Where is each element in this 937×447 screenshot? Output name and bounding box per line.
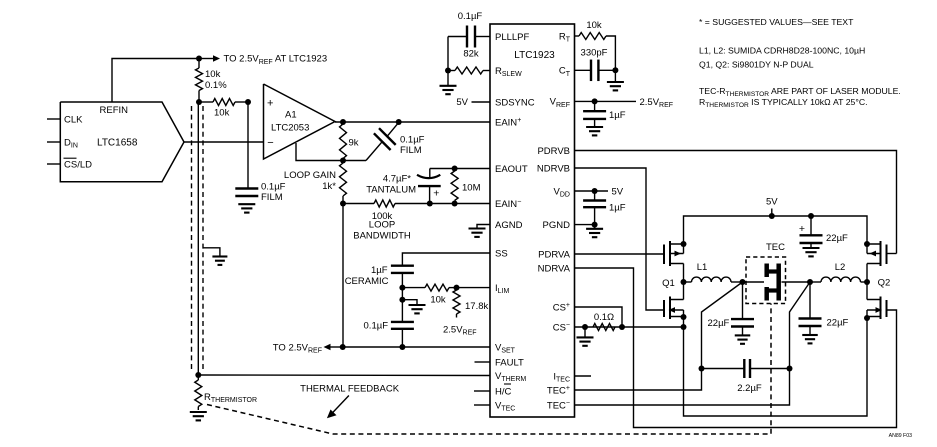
node 2.5VREF top (196, 56, 202, 62)
svg-text:10k: 10k (214, 108, 230, 119)
svg-text:5V: 5V (456, 97, 468, 108)
wire EAIN- (430, 203, 490, 205)
label Q1 (662, 278, 675, 289)
svg-text:REFIN: REFIN (100, 105, 129, 116)
svg-text:* = SUGGESTED VALUES—SEE TEXT: * = SUGGESTED VALUES—SEE TEXT (699, 17, 854, 27)
node 22uF+ top (808, 213, 814, 219)
svg-text:AGND: AGND (495, 220, 523, 231)
svg-text:2.2µF: 2.2µF (737, 383, 762, 394)
ground CS- (577, 327, 594, 346)
wire VSET (343, 346, 490, 348)
TEC element (743, 264, 811, 301)
pin ITEC stub (575, 375, 592, 377)
resistor 9k (340, 124, 359, 161)
resistor 10k to A1 (199, 99, 248, 119)
svg-text:82k: 82k (463, 49, 479, 60)
svg-text:5V: 5V (612, 186, 624, 197)
resistor 0.1 ohm (593, 312, 615, 331)
wire PLLLPF to 82k (447, 37, 449, 71)
node thermistor (195, 372, 201, 378)
svg-text:+: + (433, 188, 439, 200)
svg-text:22µF: 22µF (826, 233, 848, 244)
transistor Q1 P-channel top (664, 241, 687, 266)
wire ILIM (457, 287, 491, 289)
label THERMAL FEEDBACK (300, 384, 400, 419)
svg-text:1µF: 1µF (371, 265, 388, 276)
node bridge A out (681, 279, 687, 285)
op-amp A1 LTC2053 (264, 84, 336, 159)
svg-text:FILM: FILM (400, 145, 422, 156)
node A1 plus input (245, 99, 251, 105)
resistor 100k LOOP BANDWIDTH (343, 200, 430, 242)
pin H/C stub (474, 390, 490, 392)
svg-text:L1, L2: SUMIDA CDRH8D28-100NC,: L1, L2: SUMIDA CDRH8D28-100NC, 10µH (699, 46, 865, 56)
wire REFIN to 2.5VREF node (112, 59, 199, 103)
svg-text:Q1, Q2: Si9801DY N-P DUAL: Q1, Q2: Si9801DY N-P DUAL (699, 60, 814, 70)
svg-text:CS/LD: CS/LD (64, 159, 92, 170)
node 82k (445, 68, 451, 74)
node L1 out (740, 279, 746, 285)
IC LTC1658 DAC (60, 102, 184, 182)
svg-text:BANDWIDTH: BANDWIDTH (353, 231, 411, 242)
pin FAULT stub (475, 361, 491, 363)
node divider (196, 99, 202, 105)
wire SS (402, 253, 490, 266)
resistor 10M (451, 169, 480, 204)
shield dashed right (202, 106, 204, 372)
node PGND (592, 222, 598, 228)
wire CS+ (575, 307, 623, 327)
svg-text:A1: A1 (285, 110, 297, 121)
capacitor 22uF left (708, 318, 755, 335)
inductor L2 (810, 262, 867, 282)
svg-text:PGND: PGND (543, 220, 571, 231)
svg-text:PDRVB: PDRVB (537, 146, 570, 157)
ground 22uF plus (803, 248, 820, 256)
note Q1 Q2 (699, 60, 814, 70)
capacitor 1uF VDD (583, 191, 626, 225)
wire VTHERM (198, 374, 490, 377)
svg-text:5V: 5V (766, 197, 778, 208)
capacitor 1uF VREF (583, 101, 626, 126)
wire feedback to A1 minus (296, 143, 343, 161)
node VSET left (340, 344, 346, 350)
wire 1k to VSET line (342, 204, 344, 348)
ground 22uF right (802, 335, 818, 343)
wire TEC+ (575, 369, 702, 391)
node ILIM junction (399, 285, 405, 291)
wire PGND (575, 224, 595, 226)
thermal feedback dashed path (207, 304, 771, 435)
svg-text:1µF: 1µF (609, 110, 626, 121)
wire NDRVB (575, 168, 665, 310)
node 17.8k top (454, 285, 460, 291)
svg-text:LTC2053: LTC2053 (271, 123, 309, 134)
wire LTC1658 out to A1 minus (184, 141, 264, 143)
note thermistor value (699, 97, 868, 109)
svg-text:0.1Ω: 0.1Ω (594, 312, 614, 323)
wire SDSYNC 5V (456, 97, 490, 108)
resistor 1k LOOP GAIN (284, 163, 347, 204)
ground 82k (440, 71, 457, 95)
capacitor 22uF plus (799, 216, 848, 248)
wire CS- (575, 326, 684, 328)
svg-text:EAOUT: EAOUT (495, 164, 528, 175)
node 0.1ohm right (619, 324, 625, 330)
wire A1 output to EAIN+ (335, 121, 490, 123)
wire EAOUT (430, 168, 490, 170)
svg-text:PLLLPF: PLLLPF (495, 32, 530, 43)
node ground tap (399, 297, 405, 303)
ground below 0.1uF FILM (238, 204, 255, 212)
wire NDRVA (575, 268, 897, 428)
ground thermistor (190, 412, 207, 420)
wire Q2 drain to mid (866, 264, 868, 283)
svg-text:L1: L1 (697, 262, 708, 273)
svg-text:9k: 9k (349, 138, 359, 149)
node bridge B out (864, 279, 870, 285)
wire PDRVB (575, 151, 897, 254)
pin CLK of LTC1658 (47, 114, 83, 125)
svg-text:SS: SS (495, 248, 508, 259)
svg-text:CLK: CLK (64, 114, 83, 125)
wire Q1 source down (684, 318, 868, 416)
node VREF cap (592, 98, 598, 104)
svg-text:10k: 10k (205, 69, 221, 80)
note TEC laser module (699, 86, 901, 98)
svg-text:10M: 10M (462, 182, 481, 193)
ground PGND (586, 225, 603, 238)
capacitor 2.2uF (702, 359, 790, 394)
transistor Q2 N-channel bottom (864, 282, 887, 321)
pin CS/LD of LTC1658 (47, 158, 92, 170)
ground CT (607, 70, 624, 90)
ground of shield (212, 257, 227, 265)
svg-text:AN89 F03: AN89 F03 (889, 433, 912, 439)
svg-text:0.1µF: 0.1µF (458, 11, 483, 22)
svg-text:CERAMIC: CERAMIC (345, 276, 389, 287)
svg-text:NDRVA: NDRVA (538, 263, 571, 274)
svg-text:0.1µF: 0.1µF (261, 182, 286, 193)
wire AGND (477, 225, 490, 229)
svg-text:H/C: H/C (495, 386, 512, 397)
wire L2 node to 22uF (809, 282, 811, 319)
wire to 0.1uF (401, 288, 403, 322)
IC U1 LTC1923 (490, 24, 575, 417)
transistor Q1 N-channel bottom (664, 282, 687, 327)
svg-text:−: − (267, 137, 273, 149)
svg-text:Q1: Q1 (662, 278, 675, 289)
wire L2 node diagonal (790, 282, 811, 369)
wire L1 node diagonal (702, 282, 743, 369)
capacitor 330pF (575, 48, 616, 82)
node Q1 source sense (681, 324, 687, 330)
capacitor 0.1uF VSET (364, 320, 414, 347)
svg-text:10k: 10k (430, 295, 446, 306)
svg-text:1k*: 1k* (322, 181, 336, 192)
transistor Q2 P-channel top (864, 241, 897, 266)
svg-text:0.1µF: 0.1µF (364, 320, 389, 331)
wire TEC- (575, 369, 790, 406)
svg-text:SDSYNC: SDSYNC (495, 97, 535, 108)
svg-text:L2: L2 (835, 262, 846, 273)
ground ILIM network (409, 305, 426, 313)
wire L1 node to 22uF (742, 282, 744, 319)
node 9k top (340, 119, 346, 125)
node L2 in (807, 279, 813, 285)
capacitor 1uF CERAMIC (345, 265, 414, 288)
svg-text:Q2: Q2 (878, 278, 891, 289)
svg-text:22µF: 22µF (708, 318, 730, 329)
resistor 10k RT (575, 20, 616, 70)
capacitor 4.7uF TANTALUM (366, 169, 440, 204)
shield dashed left (191, 106, 193, 372)
ground AGND (469, 229, 486, 237)
node VSET cap (399, 344, 405, 350)
svg-text:PDRVA: PDRVA (538, 249, 571, 260)
label AN89 F03 (889, 433, 912, 439)
pin DIN of LTC1658 (47, 137, 78, 149)
node CT (612, 67, 618, 73)
note suggested values (699, 17, 854, 27)
svg-text:THERMAL FEEDBACK: THERMAL FEEDBACK (300, 384, 400, 395)
pin VTEC stub (474, 404, 490, 406)
note L1 L2 (699, 46, 865, 56)
ground VREF (586, 127, 603, 135)
svg-text:17.8k: 17.8k (465, 301, 488, 312)
svg-text:NDRVB: NDRVB (537, 163, 570, 174)
wire VREF (575, 97, 674, 109)
label 5V rail (766, 197, 778, 220)
resistor 17.8k (443, 290, 488, 337)
wire ground tap (402, 300, 417, 305)
node EAIN- left (427, 201, 433, 207)
capacitor 22uF right (799, 317, 849, 334)
capacitor 0.1uF FILM at A1 input (235, 102, 285, 203)
svg-text:TANTALUM: TANTALUM (366, 184, 416, 195)
svg-text:+: + (799, 223, 805, 235)
svg-text:+: + (267, 97, 273, 109)
arrow TO 2.5VREF AT LTC1923 (199, 54, 327, 66)
svg-text:LTC1923: LTC1923 (514, 50, 555, 61)
node film cap top (396, 119, 402, 125)
svg-text:LTC1658: LTC1658 (97, 138, 138, 149)
node 10M bottom (452, 201, 458, 207)
inductor L1 (684, 262, 743, 282)
node CS- ground (582, 324, 588, 330)
svg-text:1µF: 1µF (609, 203, 626, 214)
wire 5V rail (684, 216, 868, 244)
node 2.2uF right (787, 366, 793, 372)
label Q2 (878, 278, 891, 289)
resistor RTHERMISTOR (195, 375, 257, 410)
wire thermistor line (197, 102, 199, 375)
wire VDD 5V (575, 186, 624, 197)
svg-text:4.7µF*: 4.7µF* (383, 173, 411, 184)
capacitor 0.1uF PLLLPF (448, 11, 490, 48)
resistor 82k (448, 49, 490, 75)
node feedback (340, 158, 346, 164)
svg-text:0.1%: 0.1% (205, 80, 227, 91)
ground 22uF left (735, 335, 751, 343)
wire PDRVA (575, 253, 665, 255)
resistor 10k 0.1% (196, 59, 228, 103)
node 10M top (452, 166, 458, 172)
svg-text:0.1µF: 0.1µF (400, 135, 425, 146)
svg-text:FAULT: FAULT (495, 357, 524, 368)
svg-text:LOOP: LOOP (369, 220, 395, 231)
svg-text:10k: 10k (586, 20, 602, 31)
wire Q1 drain to mid (683, 264, 685, 283)
arrow TO 2.5VREF left (273, 342, 343, 354)
svg-text:TO 2.5VREF AT LTC1923: TO 2.5VREF AT LTC1923 (224, 54, 328, 66)
node 100k left (340, 201, 346, 207)
svg-text:LOOP GAIN: LOOP GAIN (284, 170, 336, 181)
svg-text:TEC: TEC (766, 242, 785, 253)
TEC module dashed box (746, 242, 786, 304)
resistor 10k ILIM (402, 284, 456, 305)
wire shield ground tap (203, 248, 220, 256)
svg-text:330pF: 330pF (581, 48, 608, 59)
svg-text:FILM: FILM (261, 192, 283, 203)
svg-text:22µF: 22µF (827, 317, 849, 328)
node VDD cap (592, 188, 598, 194)
node 2.2uF left (699, 366, 705, 372)
capacitor 0.1uF FILM feedback (343, 122, 425, 160)
